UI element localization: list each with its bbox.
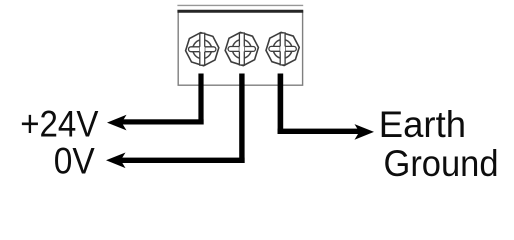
wire 0V vertical (239, 74, 244, 164)
screw terminal 2 (225, 32, 258, 65)
screw terminal 1 (186, 33, 219, 66)
wire +24V vertical (198, 74, 203, 125)
wire Earth horizontal (278, 129, 361, 134)
terminal block top thin line (177, 4, 303, 6)
wire +24V horizontal (121, 119, 204, 124)
terminal block body (178, 11, 302, 85)
svg-text:+24V: +24V (20, 104, 99, 145)
arrowhead +24V (points left) (107, 115, 127, 131)
svg-text:Earth: Earth (379, 104, 466, 145)
svg-text:Ground: Ground (384, 143, 499, 184)
terminal block top edge (thick) (177, 10, 303, 13)
screw terminal 3 (266, 32, 299, 65)
arrowhead Earth (points right) (355, 124, 375, 140)
wire Earth vertical (278, 74, 284, 135)
arrowhead 0V (points left) (106, 153, 126, 169)
wire 0V horizontal (120, 158, 245, 163)
svg-text:0V: 0V (54, 141, 95, 182)
